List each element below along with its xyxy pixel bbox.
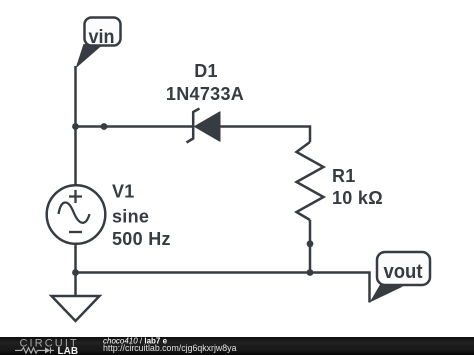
svg-text:LAB: LAB — [58, 346, 79, 355]
svg-text:1N4733A: 1N4733A — [166, 84, 244, 104]
svg-text:R1: R1 — [332, 166, 356, 186]
svg-text:sine: sine — [112, 207, 149, 227]
svg-text:vin: vin — [89, 25, 115, 47]
svg-text:vout: vout — [383, 260, 422, 283]
svg-text:10 kΩ: 10 kΩ — [332, 188, 383, 208]
svg-text:V1: V1 — [112, 182, 135, 202]
svg-text:D1: D1 — [194, 61, 218, 81]
svg-text:http://circuitlab.com/cjg6qkxr: http://circuitlab.com/cjg6qkxrjw8ya — [103, 343, 237, 353]
svg-text:500 Hz: 500 Hz — [112, 229, 171, 249]
